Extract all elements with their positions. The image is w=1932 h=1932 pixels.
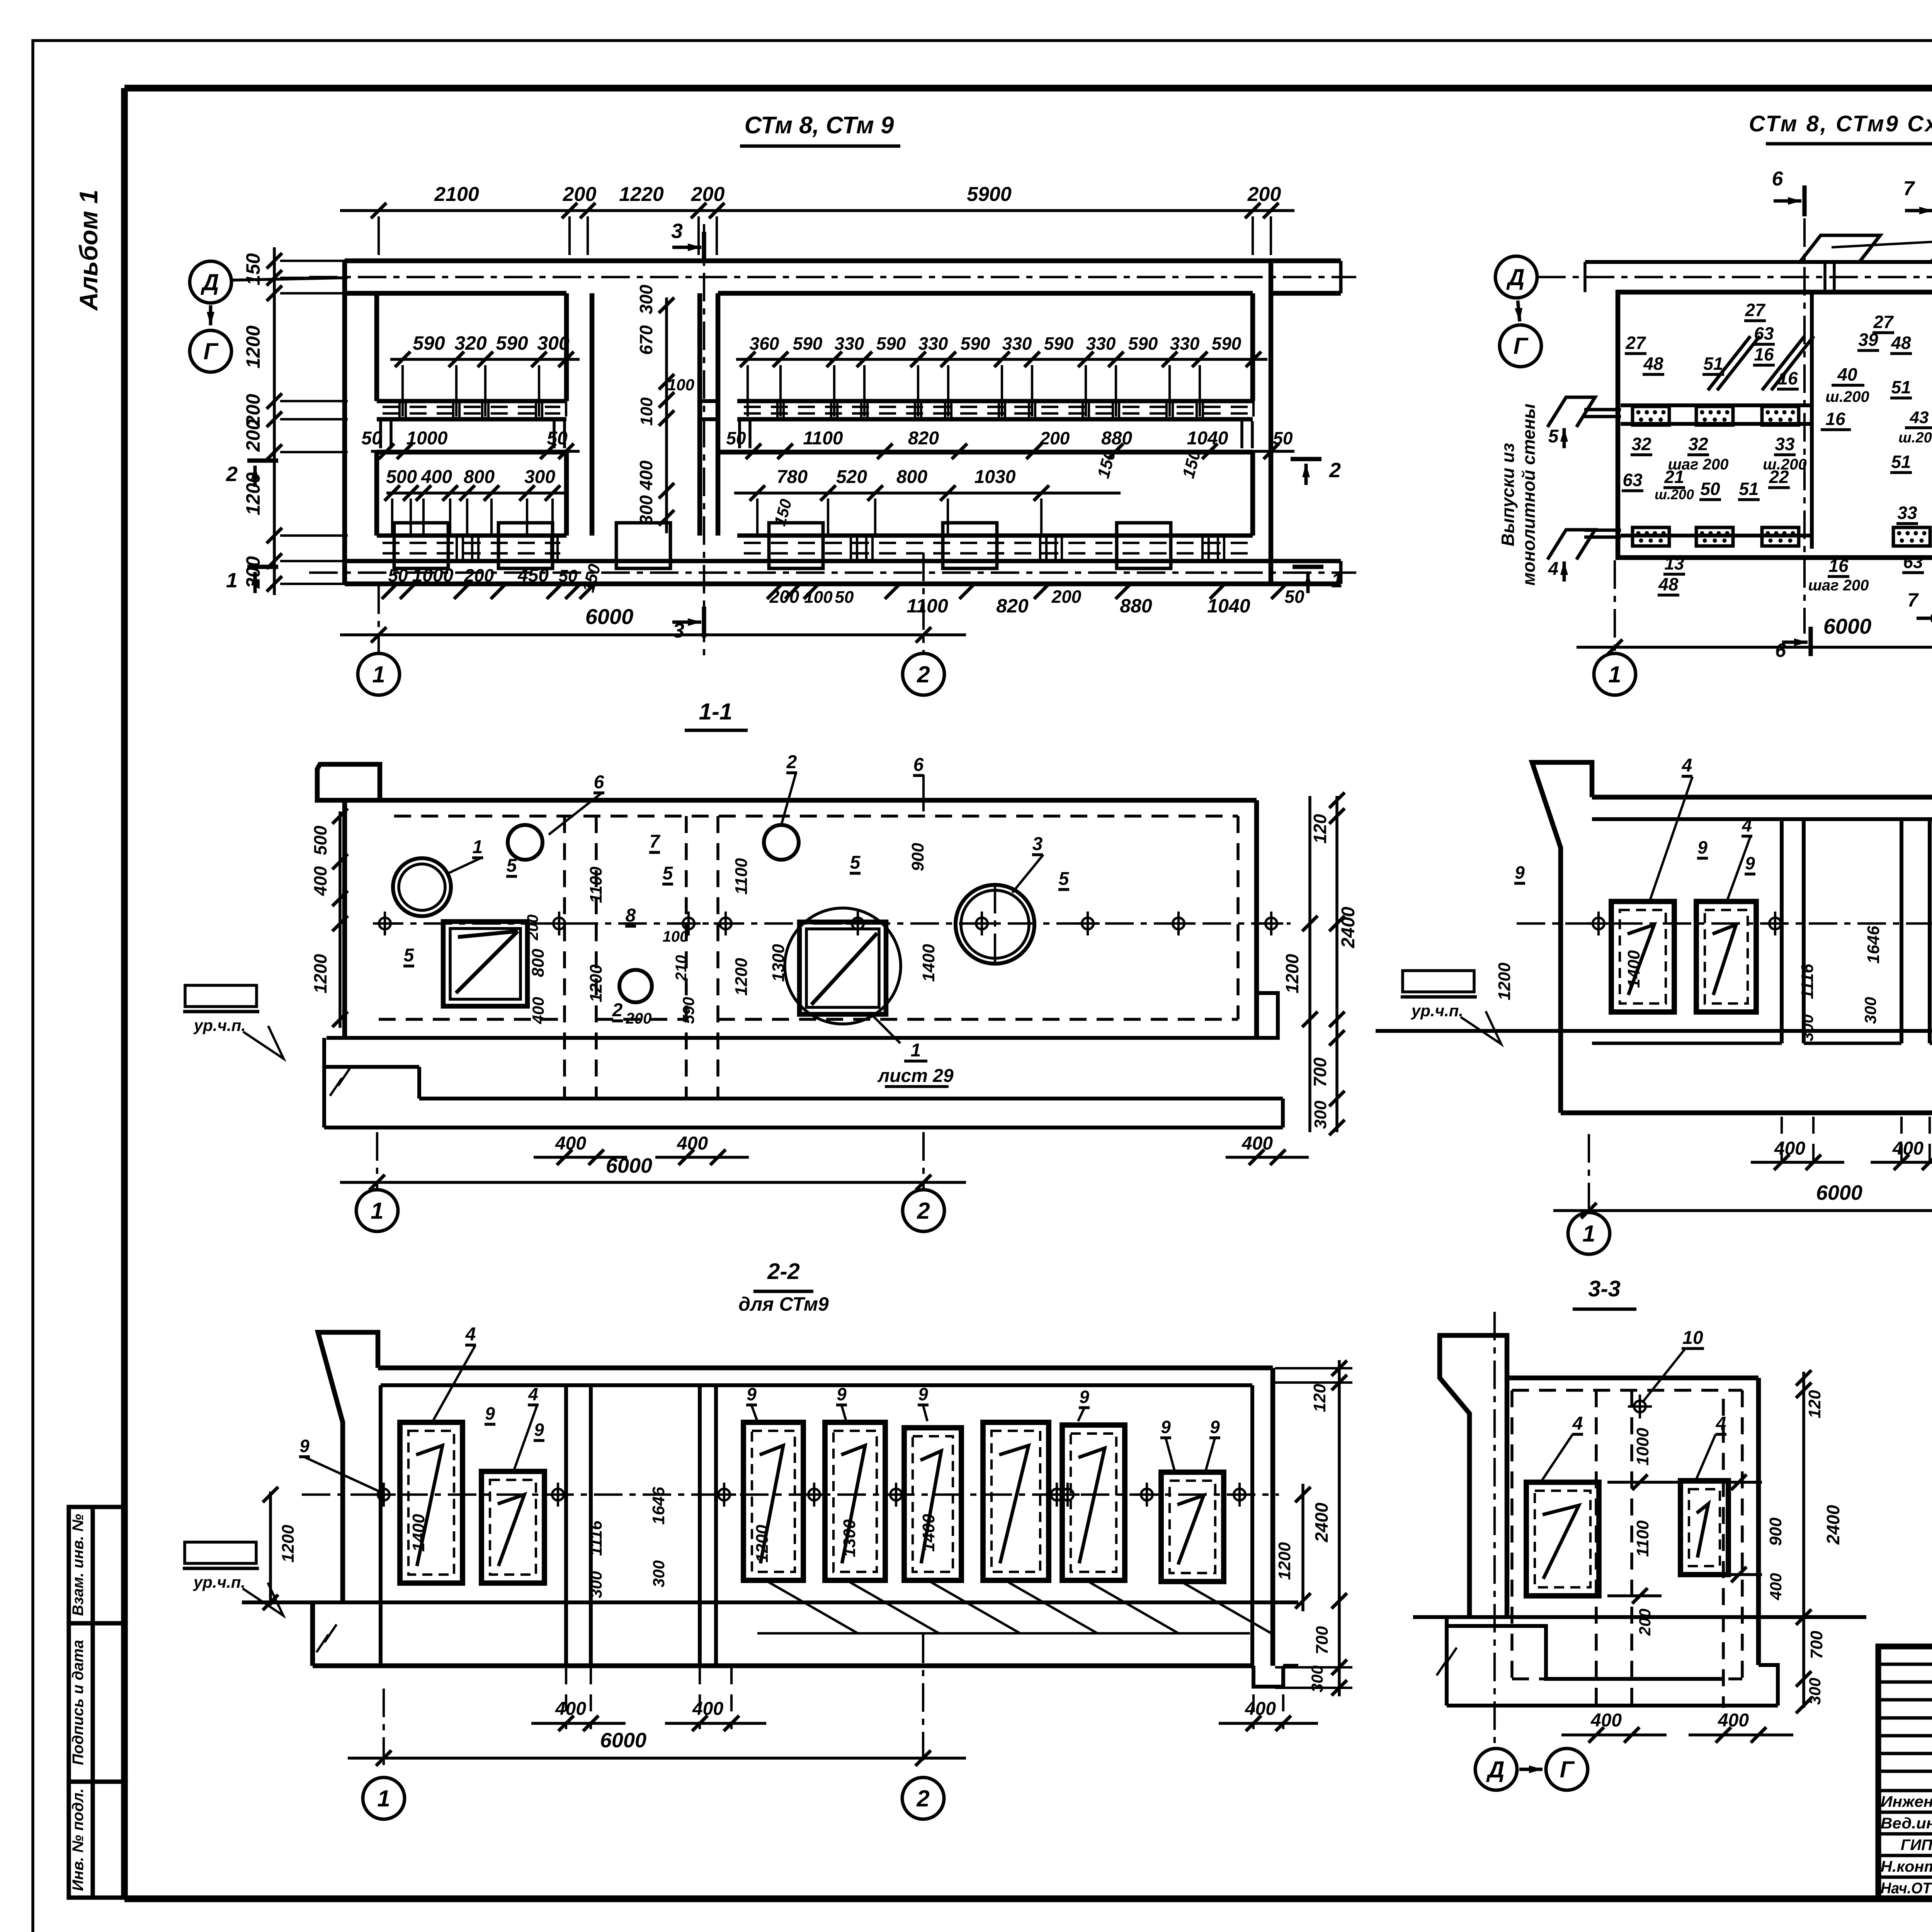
svg-text:1100: 1100 [803, 428, 843, 449]
svg-text:48: 48 [1658, 574, 1679, 594]
svg-text:51: 51 [1891, 377, 1911, 397]
section 3-3 window 1 [1526, 1482, 1599, 1596]
svg-text:200: 200 [464, 565, 494, 585]
section 3-3 parapet column [1440, 1335, 1507, 1617]
svg-text:2: 2 [917, 662, 930, 687]
svg-text:4: 4 [1572, 1413, 1583, 1434]
svg-text:Г: Г [204, 338, 219, 364]
plan upper window band right (block units) [737, 401, 1253, 419]
svg-text:590: 590 [1128, 333, 1158, 354]
svg-text:3-3: 3-3 [1588, 1276, 1621, 1301]
svg-text:Инженер: Инженер [1881, 1793, 1932, 1810]
svg-text:43: 43 [1910, 408, 1929, 427]
plan lower window band right with block units [616, 523, 1253, 568]
svg-text:50: 50 [1273, 428, 1293, 448]
svg-text:2: 2 [612, 1000, 623, 1020]
section 3-3 arrow Д to Г [1519, 1765, 1543, 1773]
svg-text:200: 200 [563, 183, 597, 206]
svg-text:63: 63 [1903, 552, 1923, 572]
svg-text:400: 400 [421, 467, 452, 487]
schema wall outline [1618, 292, 1932, 558]
svg-text:2400: 2400 [1338, 906, 1359, 948]
plan upper room 2 dimension row 360 590 330 ... [736, 333, 1267, 417]
svg-text:Нач.ОТЭП: Нач.ОТЭП [1881, 1880, 1932, 1897]
section 1-1 left parapet [317, 764, 380, 800]
section 1-1 dashed strip 1 [565, 816, 596, 1099]
svg-text:590: 590 [793, 333, 823, 354]
section 1-1 level mark ур.ч.п. [183, 985, 284, 1059]
svg-text:2: 2 [916, 1786, 929, 1811]
section 2-2 СТм8 rotated dims [1495, 811, 1932, 1129]
album label Альбом 1 [74, 190, 103, 311]
svg-text:1200: 1200 [587, 964, 605, 1002]
svg-text:ш.200: ш.200 [1898, 430, 1932, 446]
svg-text:400: 400 [1245, 1699, 1276, 1719]
schema lower rebar anchors [1633, 527, 1932, 546]
svg-text:48: 48 [1643, 354, 1663, 374]
svg-text:ГИП: ГИП [1901, 1837, 1932, 1854]
schema section mark 7 bottom [1907, 589, 1932, 634]
plan right wall [1269, 261, 1274, 584]
svg-text:1: 1 [226, 569, 238, 592]
plan lower room 2 walls (right) [718, 452, 1253, 536]
svg-text:1: 1 [377, 1786, 390, 1811]
section 3-3 grid circle Г [1546, 1748, 1588, 1790]
section 3-3 bottom dims 400 400 [1561, 1710, 1793, 1743]
plan left exterior wall [342, 261, 347, 584]
svg-text:5: 5 [850, 852, 861, 873]
plan grid circle 2 [903, 653, 944, 695]
svg-text:500: 500 [310, 825, 330, 855]
svg-text:1200: 1200 [753, 1525, 772, 1563]
section 2-2 СТм8 inner panels [1592, 819, 1932, 1043]
svg-text:6: 6 [1772, 168, 1784, 190]
svg-text:50: 50 [388, 565, 408, 585]
svg-text:1200: 1200 [310, 954, 330, 993]
plan section mark 3 bottom [672, 607, 704, 642]
plan section 3 cut line dash-dot vertical [703, 224, 705, 657]
svg-text:1100: 1100 [732, 858, 751, 895]
section 1-1 right step block [1257, 993, 1278, 1038]
svg-text:7: 7 [650, 832, 661, 852]
section 1-1 wall outline [345, 800, 1257, 1038]
section 3-3 dashed contour [1512, 1390, 1742, 1679]
schema label Выпуски из монолитной стены left rotated [1498, 404, 1539, 586]
svg-text:400: 400 [636, 460, 656, 490]
svg-text:40: 40 [1837, 364, 1857, 384]
section 3-3 dim chains left and right [1796, 1370, 1811, 1713]
svg-text:9: 9 [299, 1436, 310, 1456]
svg-text:6: 6 [913, 755, 924, 775]
schema top band lines [1585, 262, 1932, 292]
plan 50 1000 50 dimension row left [361, 428, 580, 459]
svg-text:520: 520 [836, 467, 867, 487]
plan bottom wall band [345, 561, 1341, 584]
svg-text:1400: 1400 [919, 944, 938, 982]
schema section mark 7 top [1903, 177, 1932, 226]
section 1-1 callout labels [403, 752, 1070, 1021]
plan bottom dimension row 50 1000 200 450 50 150 [363, 562, 1304, 617]
svg-text:1300: 1300 [769, 944, 788, 982]
svg-text:Г: Г [1560, 1757, 1575, 1782]
svg-text:9: 9 [918, 1384, 928, 1404]
svg-text:5900: 5900 [967, 183, 1012, 206]
plan lower room 1 walls [377, 452, 566, 536]
plan lower window band left with block units [345, 523, 1341, 568]
svg-text:1040: 1040 [1207, 595, 1250, 617]
svg-text:400: 400 [1774, 1138, 1805, 1159]
section 2-2 СТм8 wall outline [1592, 797, 1932, 1113]
schema upper rebar anchors left room [1633, 406, 1799, 425]
svg-text:400: 400 [692, 1699, 723, 1719]
svg-text:200: 200 [769, 587, 799, 607]
svg-text:СТм 8, СТм9 Схема армирования: СТм 8, СТм9 Схема армирования стен [1749, 111, 1932, 136]
svg-text:2100: 2100 [434, 183, 479, 206]
section 1-1 dashed strip 2 [686, 816, 718, 1099]
section 3-3 floor line [1413, 1615, 1866, 1619]
schema left section mark 5 up-arrow [1548, 426, 1568, 448]
svg-text:1: 1 [372, 662, 385, 687]
svg-text:400: 400 [1892, 1138, 1923, 1159]
svg-text:400: 400 [310, 866, 330, 896]
svg-text:200: 200 [626, 1010, 652, 1027]
svg-text:33: 33 [1897, 503, 1917, 523]
svg-text:ш.200: ш.200 [1825, 388, 1869, 405]
section 2-2 СТм8 level mark [1401, 971, 1501, 1044]
svg-text:450: 450 [517, 565, 549, 586]
svg-text:1: 1 [1331, 569, 1343, 592]
section 2-2 СТм9 wall outline [378, 1368, 1273, 1666]
schema vypuski hook 2 [1931, 235, 1932, 262]
section 3-3 dashed strips [1596, 1390, 1723, 1708]
svg-text:для СТм9: для СТм9 [738, 1293, 829, 1315]
schema section cut line 6 vertical [1803, 218, 1806, 634]
schema section mark 6 top [1772, 168, 1804, 216]
svg-text:1200: 1200 [732, 958, 751, 996]
svg-text:Г: Г [1514, 333, 1529, 359]
plan lower room 1 dimension row 500 400 800 300 [384, 467, 564, 537]
svg-text:200: 200 [1636, 1609, 1654, 1636]
plan grid line 1 extension [378, 585, 380, 653]
section 1-1 detail label лист 29 [869, 1012, 954, 1087]
plan lower room 2 dimension row 780 520 800 1030 [734, 467, 1121, 537]
svg-text:820: 820 [996, 595, 1029, 617]
schema hook connectors to wall [1825, 262, 1932, 292]
section 2-2 СТм8 centerline with anchors [1517, 912, 1932, 935]
svg-text:50: 50 [1284, 587, 1304, 607]
svg-text:6000: 6000 [1823, 614, 1872, 638]
svg-text:1-1: 1-1 [699, 699, 733, 724]
svg-text:16: 16 [1825, 409, 1845, 429]
svg-text:Вед.инж.: Вед.инж. [1881, 1815, 1932, 1832]
svg-text:800: 800 [464, 467, 495, 487]
svg-text:400: 400 [555, 1699, 586, 1719]
svg-text:1: 1 [1608, 662, 1621, 687]
plan grid circle Г [190, 330, 231, 372]
svg-text:9: 9 [1515, 862, 1525, 883]
plan upper window band left (block units) [377, 401, 566, 419]
svg-text:6000: 6000 [600, 1729, 646, 1752]
svg-text:400: 400 [1718, 1710, 1749, 1731]
schema grid circle 1 [1594, 653, 1636, 695]
svg-text:900: 900 [908, 843, 927, 871]
svg-text:400: 400 [1590, 1710, 1622, 1731]
svg-text:900: 900 [1766, 1517, 1785, 1546]
svg-text:16: 16 [1778, 368, 1798, 388]
svg-text:360: 360 [750, 333, 779, 354]
svg-text:400: 400 [529, 997, 547, 1024]
svg-text:330: 330 [918, 333, 948, 354]
plan 150 dims rotated right area [770, 448, 1204, 528]
section 1-1 title [685, 699, 748, 730]
svg-text:21: 21 [1664, 467, 1684, 487]
svg-text:1200: 1200 [1495, 963, 1514, 1000]
svg-text:880: 880 [1120, 595, 1152, 617]
schema callout labels group 3 (lower) [1622, 425, 1932, 526]
svg-text:16: 16 [1754, 344, 1774, 364]
svg-text:1030: 1030 [975, 467, 1016, 487]
section 2-2 СТм9 title [738, 1259, 829, 1315]
section 3-3 callouts 4 [1542, 1413, 1726, 1481]
svg-text:300: 300 [1861, 997, 1879, 1024]
section 2-2 СТм9 grid circle 2 [902, 1777, 944, 1819]
section 1-1 square opening 2 with detail circle [785, 908, 901, 1024]
left stamp column boxes [69, 1507, 126, 1898]
schema grid circle Д [1495, 256, 1537, 298]
svg-text:200: 200 [1247, 183, 1281, 206]
plan line from circle Д [231, 278, 342, 280]
plan 6000 dimension [340, 604, 966, 643]
svg-text:100: 100 [667, 376, 694, 394]
svg-text:6000: 6000 [1816, 1181, 1862, 1204]
svg-text:200: 200 [691, 183, 725, 206]
section 1-1 small circle top 2 [764, 825, 799, 860]
svg-text:1200: 1200 [1282, 954, 1302, 993]
svg-text:4: 4 [465, 1324, 476, 1345]
plan grid circle 1 [358, 653, 400, 695]
svg-text:Выпуски из: Выпуски из [1498, 443, 1518, 546]
plan title СТм 8, СТм 9 [740, 112, 900, 146]
section 1-1 centerline with anchor points [373, 912, 1291, 935]
svg-text:51: 51 [1703, 354, 1723, 374]
section 2-2 СТм9 floor line [242, 1600, 1298, 1604]
svg-text:51: 51 [1739, 479, 1759, 499]
svg-text:9: 9 [485, 1403, 495, 1423]
svg-text:5: 5 [1059, 869, 1070, 889]
svg-text:63: 63 [1622, 470, 1643, 490]
svg-text:6000: 6000 [585, 604, 634, 629]
svg-text:Инв. № подл.: Инв. № подл. [70, 1788, 87, 1891]
svg-text:590: 590 [413, 332, 445, 354]
section 2-2 СТм8 foundation [1561, 1031, 1932, 1132]
svg-text:1100: 1100 [587, 866, 605, 903]
plan section mark 1 right [1293, 567, 1343, 593]
section 3-3 wall outline [1507, 1378, 1759, 1665]
svg-text:1200: 1200 [279, 1525, 298, 1563]
schema left vypusk flag lower [1548, 530, 1621, 560]
plan section mark 3 top [671, 219, 704, 263]
svg-text:330: 330 [1170, 333, 1200, 354]
svg-text:150: 150 [242, 253, 264, 286]
svg-text:700: 700 [1807, 1631, 1826, 1659]
svg-text:320: 320 [454, 332, 487, 354]
svg-text:400: 400 [1767, 1573, 1785, 1600]
plan upper room 2 walls (right) [718, 293, 1253, 401]
svg-text:880: 880 [1101, 428, 1132, 449]
svg-text:1100: 1100 [906, 595, 948, 617]
svg-text:210: 210 [673, 955, 690, 981]
section 2-2 СТм9 level mark [183, 1542, 283, 1616]
schema vypuski hook 1 [1800, 235, 1880, 262]
svg-text:ур.ч.п.: ур.ч.п. [1411, 1002, 1463, 1020]
svg-text:1: 1 [1582, 1221, 1595, 1247]
section 3-3 window dim lines [1607, 1406, 1762, 1615]
svg-text:330: 330 [1002, 333, 1032, 354]
svg-text:1116: 1116 [1798, 964, 1817, 999]
section 1-1 inner dashed contour [379, 816, 1238, 1019]
section 3-3 grid circle Д [1475, 1748, 1517, 1790]
plan window band end caps right [740, 421, 1252, 448]
schema label Выпуски из монолитной стены top [1832, 212, 1932, 247]
svg-text:6: 6 [594, 772, 604, 793]
section 2-2 СТм9 centerline with anchors [302, 1483, 1279, 1507]
section 2-2 СТм8 bottom dims 400 [1751, 1117, 1932, 1170]
svg-text:1: 1 [371, 1198, 383, 1224]
svg-text:3: 3 [1032, 834, 1043, 854]
section 2-2 СТм9 bottom dims 400 [531, 1667, 1318, 1731]
svg-text:300: 300 [636, 284, 656, 314]
svg-text:Д: Д [1506, 264, 1524, 290]
svg-text:330: 330 [1086, 333, 1116, 354]
section 1-1 foundation break mark [330, 1068, 350, 1096]
svg-text:4: 4 [1548, 559, 1559, 579]
svg-text:39: 39 [1858, 330, 1878, 350]
svg-text:2: 2 [1329, 459, 1341, 482]
plan window band end caps left [381, 421, 565, 448]
svg-text:200: 200 [242, 419, 264, 452]
title block left table grid [1878, 1646, 1932, 1899]
svg-text:1000: 1000 [406, 428, 448, 449]
section 3-3 callout 10 with anchor [1628, 1328, 1704, 1418]
svg-text:9: 9 [1697, 837, 1708, 857]
svg-text:1300: 1300 [840, 1519, 859, 1557]
svg-text:300: 300 [636, 495, 656, 525]
svg-text:16: 16 [1828, 556, 1849, 576]
svg-text:5: 5 [663, 863, 673, 884]
svg-text:Д: Д [200, 269, 219, 295]
svg-text:1400: 1400 [409, 1514, 428, 1552]
svg-text:200: 200 [1051, 587, 1082, 607]
svg-text:4: 4 [528, 1384, 538, 1404]
section 1-1 6000 dimension [340, 1132, 966, 1190]
section 3-3 rotated dims [1633, 1390, 1843, 1705]
section 1-1 grid circle 2 [903, 1190, 944, 1231]
svg-text:2: 2 [226, 463, 238, 486]
section 2-2 СТм9 window 4 [825, 1422, 885, 1580]
plan upper room 1 walls [377, 293, 566, 401]
section 1-1 square opening with frame [443, 922, 527, 1006]
svg-text:300: 300 [1311, 1100, 1330, 1129]
section 2-2 СТм9 window 8 [1161, 1472, 1224, 1582]
svg-text:32: 32 [1688, 434, 1708, 454]
svg-text:1200: 1200 [1275, 1542, 1294, 1580]
svg-text:3: 3 [671, 219, 683, 243]
svg-text:1400: 1400 [1624, 950, 1643, 988]
section 2-2 СТм9 window 2 [481, 1471, 544, 1583]
svg-text:4: 4 [1742, 815, 1752, 835]
stamp label Инв. № подл. [70, 1788, 87, 1891]
schema diagonal bars left room [1708, 336, 1814, 390]
svg-text:1: 1 [473, 837, 483, 857]
section 2-2 СТм9 callouts 9 and 4 [299, 1324, 1220, 1493]
svg-text:22: 22 [1769, 467, 1789, 487]
svg-text:1000: 1000 [1633, 1428, 1652, 1466]
svg-text:1200: 1200 [242, 325, 264, 368]
section 2-2 СТм9 window 3 [743, 1422, 803, 1580]
schema left vypusk flag upper [1548, 397, 1621, 427]
plan section mark 2 left [226, 461, 278, 487]
section 1-1 internal rotated dims [524, 843, 938, 1027]
svg-text:400: 400 [1242, 1133, 1273, 1154]
svg-text:1100: 1100 [1633, 1520, 1652, 1557]
svg-text:1220: 1220 [619, 183, 664, 206]
schema callout labels group 1 (upper) [1625, 300, 1932, 405]
plan grid line 2 extension [922, 553, 925, 653]
svg-text:9: 9 [1079, 1387, 1089, 1407]
svg-text:9: 9 [747, 1384, 757, 1404]
section 2-2 СТм9 window 5 [904, 1428, 961, 1580]
svg-text:200: 200 [524, 915, 541, 941]
section 2-2 СТм9 window 7 [1062, 1425, 1125, 1580]
section 2-2 СТм8 parapet and left edge [1532, 762, 1592, 1031]
svg-text:СТм 8, СТм 9: СТм 8, СТм 9 [744, 112, 894, 139]
section 1-1 small circle mid [619, 970, 652, 1002]
schema arrow Д to Г [1515, 301, 1522, 321]
section 3-3 foundation break mark [1437, 1648, 1457, 1675]
svg-text:590: 590 [679, 997, 697, 1024]
svg-text:100: 100 [804, 588, 833, 607]
schema section mark 6 bottom left [1775, 627, 1811, 661]
svg-text:1646: 1646 [649, 1487, 668, 1525]
svg-text:800: 800 [896, 467, 927, 487]
svg-text:50: 50 [1700, 479, 1720, 499]
plan top wall band [345, 261, 1341, 293]
svg-text:4: 4 [1682, 755, 1692, 776]
plan section mark 1 left [226, 567, 278, 593]
section 1-1 grid circle 1 [356, 1190, 398, 1231]
svg-text:ур.ч.п.: ур.ч.п. [193, 1573, 245, 1591]
svg-text:200: 200 [1040, 428, 1070, 448]
schema 6000 dimension [1577, 560, 1932, 655]
svg-text:5: 5 [404, 945, 415, 966]
svg-text:1400: 1400 [919, 1514, 938, 1552]
section 2-2 СТм9 window 1 [400, 1422, 463, 1583]
svg-text:51: 51 [1891, 452, 1911, 472]
svg-text:48: 48 [1891, 333, 1911, 353]
svg-text:780: 780 [777, 467, 808, 487]
schema callout labels group 4 (bottom) [1658, 552, 1932, 656]
svg-text:2: 2 [917, 1198, 930, 1224]
svg-text:50: 50 [547, 428, 568, 449]
section 3-3 window 2 [1680, 1481, 1728, 1575]
svg-text:Н.контр.: Н.контр. [1881, 1858, 1932, 1875]
section 2-2 СТм9 and 3-3 shared dim chains 120 2400 1200 700 300 [1275, 1360, 1352, 1696]
section 2-2 СТм8 floor line [1376, 1029, 1932, 1033]
section 3-3 foundation [1447, 1617, 1778, 1706]
section 2-2 СТм9 window leader lines [580, 1582, 1271, 1646]
section 1-1 bottom dims 400 400 400 [534, 1133, 1309, 1165]
svg-text:9: 9 [1210, 1417, 1220, 1437]
